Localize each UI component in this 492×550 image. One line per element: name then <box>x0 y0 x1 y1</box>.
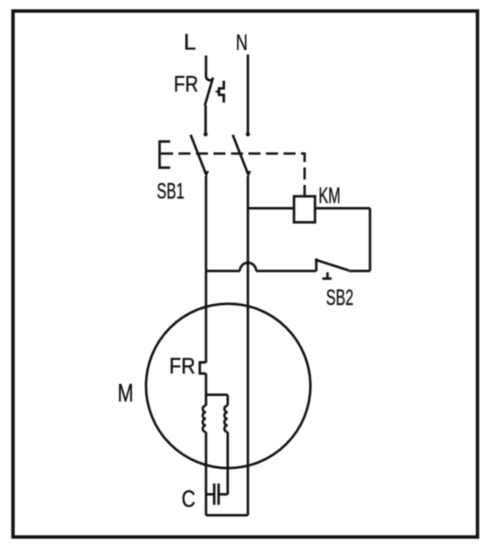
svg-text:L: L <box>184 30 197 55</box>
svg-text:SB1: SB1 <box>157 179 185 204</box>
svg-text:N: N <box>236 30 248 55</box>
svg-text:FR: FR <box>174 71 199 96</box>
svg-text:SB2: SB2 <box>326 285 354 310</box>
svg-text:C: C <box>182 486 196 513</box>
svg-text:KM: KM <box>319 183 341 208</box>
svg-text:FR: FR <box>169 354 195 379</box>
svg-text:M: M <box>118 379 134 407</box>
